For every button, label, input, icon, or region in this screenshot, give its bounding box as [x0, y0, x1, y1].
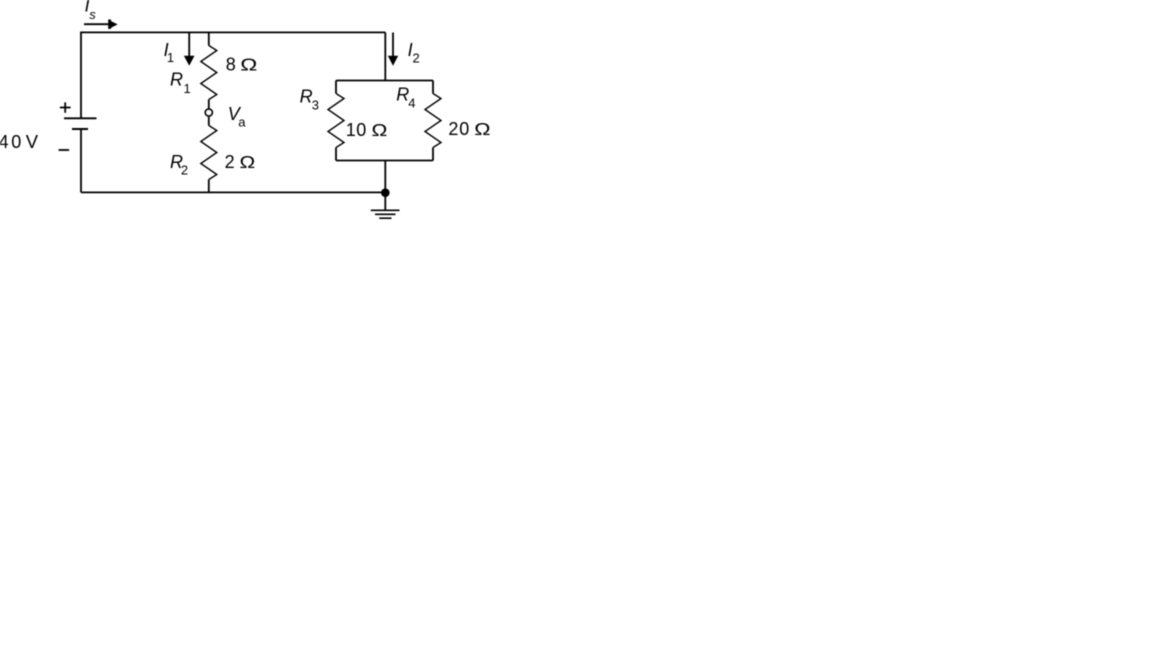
wire R2 to bottom: [208, 180, 210, 193]
ground bar 3: [379, 217, 391, 219]
label Is: [85, 0, 97, 22]
label R1: [170, 69, 191, 95]
wire R1 branch top: [208, 32, 210, 45]
wire node Va to R2: [208, 117, 210, 126]
label 40 V: [0, 131, 39, 152]
label minus: [59, 149, 70, 151]
resistor R3 10 ohm lead top: [335, 81, 337, 94]
resistor R4 20 ohm lead top: [432, 81, 434, 94]
battery V1 plate negative short: [72, 128, 88, 130]
junction node dot: [381, 188, 390, 197]
wire parallel block bottom: [336, 160, 433, 162]
svg-text:10: 10: [346, 120, 367, 140]
label Va: [228, 104, 247, 129]
svg-text:40: 40: [0, 132, 21, 152]
svg-text:8: 8: [226, 54, 236, 74]
resistor R2 2 ohm zigzag: [201, 126, 217, 180]
current arrow I2: [388, 33, 398, 66]
wire bottom horizontal: [81, 191, 385, 193]
label I2: [408, 40, 420, 66]
svg-text:2: 2: [225, 152, 235, 172]
node Va circle: [205, 109, 212, 116]
battery V1 plate positive long: [64, 117, 97, 119]
svg-text:R: R: [300, 86, 313, 106]
ground stem: [384, 192, 386, 210]
svg-text:s: s: [89, 7, 96, 22]
svg-text:R: R: [396, 85, 409, 105]
current arrow Is: [84, 20, 118, 29]
svg-text:3: 3: [312, 97, 319, 112]
label 2 ohm: [225, 152, 256, 173]
wire R1 to node Va: [208, 100, 210, 109]
label R4: [396, 85, 415, 111]
label 8 ohm: [226, 54, 257, 74]
resistor R4 20 ohm lead bottom: [432, 148, 434, 161]
wire right vertical to parallel block: [384, 32, 386, 80]
ground bar 1: [371, 209, 400, 211]
svg-text:4: 4: [408, 96, 415, 111]
resistor R1 8 ohm zigzag: [201, 46, 217, 100]
svg-text:2: 2: [413, 51, 420, 66]
resistor R3 10 ohm lead bottom: [335, 148, 337, 161]
wire parallel block top: [336, 80, 433, 82]
svg-text:20: 20: [448, 119, 469, 139]
svg-text:1: 1: [167, 50, 174, 65]
label 20 ohm: [448, 119, 490, 140]
label 10 ohm: [346, 120, 388, 141]
svg-text:Ω: Ω: [474, 120, 490, 140]
resistor R4 20 ohm zigzag: [425, 94, 441, 148]
svg-text:a: a: [238, 114, 246, 129]
ground bar 2: [375, 213, 396, 215]
label R2: [170, 152, 188, 177]
wire top horizontal: [81, 32, 385, 118]
svg-text:1: 1: [184, 81, 191, 96]
wire battery negative to bottom: [80, 129, 82, 192]
label plus: [60, 102, 71, 112]
svg-text:Ω: Ω: [372, 120, 388, 140]
wire block bottom center to ground node: [384, 161, 386, 193]
svg-text:R: R: [170, 69, 183, 89]
svg-text:Ω: Ω: [240, 55, 257, 75]
label I1: [164, 40, 175, 65]
svg-text:Ω: Ω: [240, 153, 256, 173]
svg-text:2: 2: [181, 162, 188, 177]
resistor R3 10 ohm zigzag: [328, 94, 344, 148]
current arrow I1: [184, 33, 195, 66]
svg-text:V: V: [26, 131, 39, 152]
label R3: [300, 86, 319, 112]
